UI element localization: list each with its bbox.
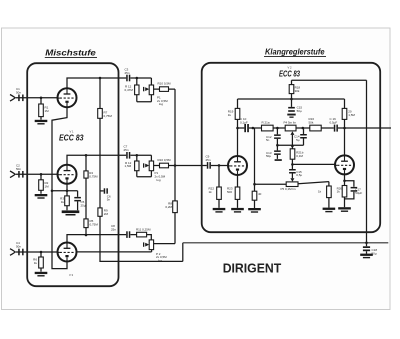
svg-text:ECC 83: ECC 83	[279, 69, 300, 78]
svg-text:0,1µF: 0,1µF	[240, 120, 248, 124]
svg-text:50µ: 50µ	[372, 251, 377, 255]
svg-text:25µ: 25µ	[81, 203, 86, 207]
svg-text:log: log	[157, 178, 161, 182]
svg-text:50n: 50n	[16, 90, 21, 94]
svg-text:0,47M: 0,47M	[125, 88, 134, 92]
svg-text:25n: 25n	[125, 71, 130, 75]
svg-text:5µ: 5µ	[296, 138, 300, 142]
svg-text:40: 40	[258, 192, 262, 196]
svg-text:P4 5m lin: P4 5m lin	[284, 121, 297, 125]
svg-text:0,75M: 0,75M	[90, 222, 99, 226]
svg-text:0,1M: 0,1M	[296, 154, 303, 158]
svg-text:ECC 83: ECC 83	[59, 134, 84, 143]
svg-text:50n: 50n	[16, 167, 21, 171]
svg-text:25n: 25n	[206, 158, 211, 162]
svg-text:50µ: 50µ	[266, 154, 271, 158]
svg-text:R10 0,5M: R10 0,5M	[158, 158, 172, 162]
svg-text:Mischstufe: Mischstufe	[45, 48, 96, 57]
svg-text:DIRIGENT: DIRIGENT	[223, 260, 282, 275]
svg-text:log: log	[159, 102, 163, 106]
svg-text:1k: 1k	[61, 200, 65, 204]
svg-text:1M: 1M	[45, 185, 50, 189]
svg-text:25n: 25n	[111, 227, 116, 231]
svg-text:1,5M: 1,5M	[348, 113, 355, 117]
svg-text:1,5M: 1,5M	[125, 164, 132, 168]
svg-text:V 2: V 2	[288, 66, 293, 70]
svg-text:0,5µ: 0,5µ	[296, 173, 302, 177]
svg-text:R11 0,25M: R11 0,25M	[136, 227, 151, 231]
svg-text:Klangreglerstufe: Klangreglerstufe	[265, 48, 325, 57]
svg-text:V 1: V 1	[70, 130, 75, 134]
svg-text:V 3: V 3	[69, 273, 74, 277]
svg-text:30k: 30k	[295, 89, 300, 93]
svg-text:1k: 1k	[228, 113, 232, 117]
svg-text:500: 500	[227, 190, 232, 194]
svg-text:5n: 5n	[107, 198, 111, 202]
svg-text:1k: 1k	[209, 190, 213, 194]
svg-text:50n: 50n	[16, 245, 21, 249]
svg-text:25n: 25n	[124, 148, 129, 152]
svg-text:0,5µF: 0,5µF	[330, 120, 338, 124]
svg-text:P5 0,1M lin: P5 0,1M lin	[281, 187, 296, 191]
svg-text:0,75M: 0,75M	[104, 114, 113, 118]
svg-text:50k: 50k	[309, 120, 314, 124]
svg-text:R 21a: R 21a	[262, 121, 270, 125]
svg-text:5n: 5n	[266, 138, 270, 142]
svg-text:50µ: 50µ	[297, 109, 302, 113]
svg-text:50µF: 50µF	[355, 191, 362, 195]
svg-text:0,2M: 0,2M	[165, 205, 172, 209]
svg-text:R10 0,5M: R10 0,5M	[158, 82, 172, 86]
svg-text:1k: 1k	[337, 190, 341, 194]
svg-text:2M: 2M	[104, 212, 109, 216]
svg-text:1M: 1M	[45, 109, 50, 113]
svg-text:log: log	[158, 259, 162, 263]
svg-text:0,75M: 0,75M	[89, 174, 98, 178]
svg-text:1k: 1k	[34, 261, 38, 265]
svg-text:1k: 1k	[318, 189, 322, 193]
